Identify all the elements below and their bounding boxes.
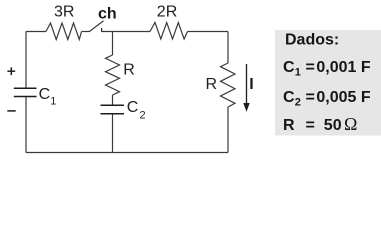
svg-text:=: = xyxy=(306,117,315,134)
wire right branch upper xyxy=(227,32,229,64)
resistor R (right branch) xyxy=(221,63,236,107)
wire 2R to top-right corner xyxy=(188,31,229,33)
svg-text:C: C xyxy=(39,86,51,103)
wire left lower (C1 bottom plate to bottom wire) xyxy=(25,97,27,153)
svg-text:1: 1 xyxy=(50,95,56,107)
capacitor C2 plates xyxy=(101,104,125,106)
Dados box xyxy=(275,30,381,136)
wire R to C2 xyxy=(112,95,114,105)
svg-text:Dados:: Dados: xyxy=(285,32,339,49)
svg-text:ch: ch xyxy=(98,5,117,22)
svg-text:Ω: Ω xyxy=(344,114,357,134)
plus sign of C1 xyxy=(7,70,15,72)
svg-text:0,001 F: 0,001 F xyxy=(316,59,370,76)
wire top-left: left corner to 3R xyxy=(26,31,46,33)
svg-text:R: R xyxy=(123,61,135,78)
svg-text:C: C xyxy=(283,59,295,76)
svg-text:C: C xyxy=(127,99,139,116)
svg-text:=: = xyxy=(306,59,315,76)
wire switch to 2R xyxy=(102,31,150,33)
wire 3R to switch xyxy=(82,31,90,33)
svg-text:I: I xyxy=(249,76,253,93)
resistor R (middle branch) xyxy=(106,55,120,95)
svg-text:R: R xyxy=(206,76,218,93)
switch ch contact tick xyxy=(101,28,103,32)
wire right branch lower xyxy=(227,107,229,153)
svg-text:C: C xyxy=(283,89,295,106)
svg-text:2: 2 xyxy=(295,97,301,109)
svg-text:3R: 3R xyxy=(54,4,74,21)
svg-text:1: 1 xyxy=(295,67,301,79)
wire bottom xyxy=(26,152,228,154)
current arrow I xyxy=(246,64,248,104)
svg-text:=: = xyxy=(306,89,315,106)
svg-text:R: R xyxy=(283,117,295,134)
svg-text:2: 2 xyxy=(140,110,146,122)
node A: junction of switch wire and middle branch xyxy=(112,32,114,56)
svg-text:2R: 2R xyxy=(157,4,177,21)
svg-text:0,005 F: 0,005 F xyxy=(316,89,370,106)
resistor 3R xyxy=(46,23,82,40)
svg-text:50: 50 xyxy=(324,117,342,134)
wire C2 to bottom xyxy=(112,114,114,153)
switch ch blade xyxy=(89,21,104,32)
resistor 2R xyxy=(150,23,188,40)
wire left upper (corner to C1 top plate) xyxy=(25,32,27,89)
capacitor C1 plates xyxy=(14,87,37,89)
minus sign of C1 xyxy=(7,110,15,112)
